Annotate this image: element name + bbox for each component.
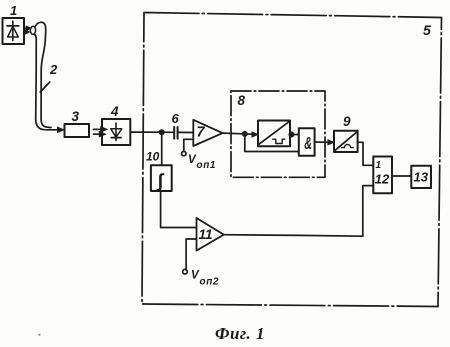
svg-text:&: & xyxy=(304,135,312,154)
svg-text:1: 1 xyxy=(376,160,382,171)
AND gate block xyxy=(299,128,315,156)
block 1 light source xyxy=(3,18,25,44)
wire block 12 to block 13 xyxy=(392,175,411,177)
svg-text:9: 9 xyxy=(343,114,351,129)
wire fiber to block 3 with arrowhead xyxy=(50,127,64,133)
ADC block inside box 8 xyxy=(258,121,290,147)
block 12 xyxy=(373,157,392,194)
svg-text:7: 7 xyxy=(197,125,206,141)
block 3 xyxy=(65,124,90,137)
wire block 10 to op-amp 11 xyxy=(161,191,197,228)
svg-text:12: 12 xyxy=(375,171,390,186)
wire ADC output to AND gate xyxy=(290,134,299,136)
junction B xyxy=(242,131,248,137)
svg-text:∫: ∫ xyxy=(156,171,165,192)
svg-text:8: 8 xyxy=(238,93,246,108)
block 13 xyxy=(411,166,431,188)
junction C xyxy=(288,132,294,138)
terminal circle Vop2 xyxy=(183,269,188,274)
wire capacitor to op-amp 7 xyxy=(178,131,193,133)
svg-text:5: 5 xyxy=(423,22,431,38)
junction A xyxy=(159,129,165,135)
svg-text:оп1: оп1 xyxy=(197,160,217,171)
speck xyxy=(38,334,40,336)
wire junction A to capacitor 6 xyxy=(162,131,174,133)
dash-dot enclosure box 5 xyxy=(142,13,442,307)
svg-text:3: 3 xyxy=(72,109,80,124)
wire block 9 to block 12 top input xyxy=(358,142,374,165)
dash-dot box 8 xyxy=(231,91,325,177)
svg-text:10: 10 xyxy=(146,150,160,164)
wire AND gate to block 9 with arrowhead xyxy=(315,140,335,146)
svg-text:2: 2 xyxy=(49,62,58,77)
block 10 integrator xyxy=(151,165,172,191)
label Vop2 xyxy=(191,270,219,288)
wire op-amp 11 output to block 12 bottom input xyxy=(224,186,373,237)
wire op-amp 7 ref input to Vop1 terminal xyxy=(184,139,194,151)
svg-text:4: 4 xyxy=(110,104,119,119)
op-amp 11 xyxy=(197,218,224,251)
terminal circle Vop1 xyxy=(182,151,186,155)
svg-text:13: 13 xyxy=(414,170,429,185)
wire op-amp 11 ref input to Vop2 terminal xyxy=(186,239,196,269)
svg-text:11: 11 xyxy=(199,227,213,242)
op-amp 7 xyxy=(193,120,222,146)
emission arrows from block 1 xyxy=(25,26,32,35)
wire junction B to ADC with arrowhead xyxy=(245,132,258,138)
capacitor 6 xyxy=(174,127,177,139)
light beam arrows into block 4 xyxy=(94,126,108,137)
feedback wire around ADC xyxy=(245,135,299,152)
wire junction A down to block 10 xyxy=(161,132,163,165)
wire block4 to junction A xyxy=(130,131,160,133)
svg-text:6: 6 xyxy=(172,111,180,126)
block 9 DAC xyxy=(334,131,358,152)
wire op-amp 7 output to box 8 xyxy=(223,132,243,135)
block 4 photodetector xyxy=(102,119,130,145)
svg-text:оп2: оп2 xyxy=(200,277,220,288)
optical fiber 2 xyxy=(30,22,51,130)
svg-text:Фиг. 1: Фиг. 1 xyxy=(215,324,265,343)
label Vop1 xyxy=(188,154,216,171)
svg-text:1: 1 xyxy=(10,3,17,18)
